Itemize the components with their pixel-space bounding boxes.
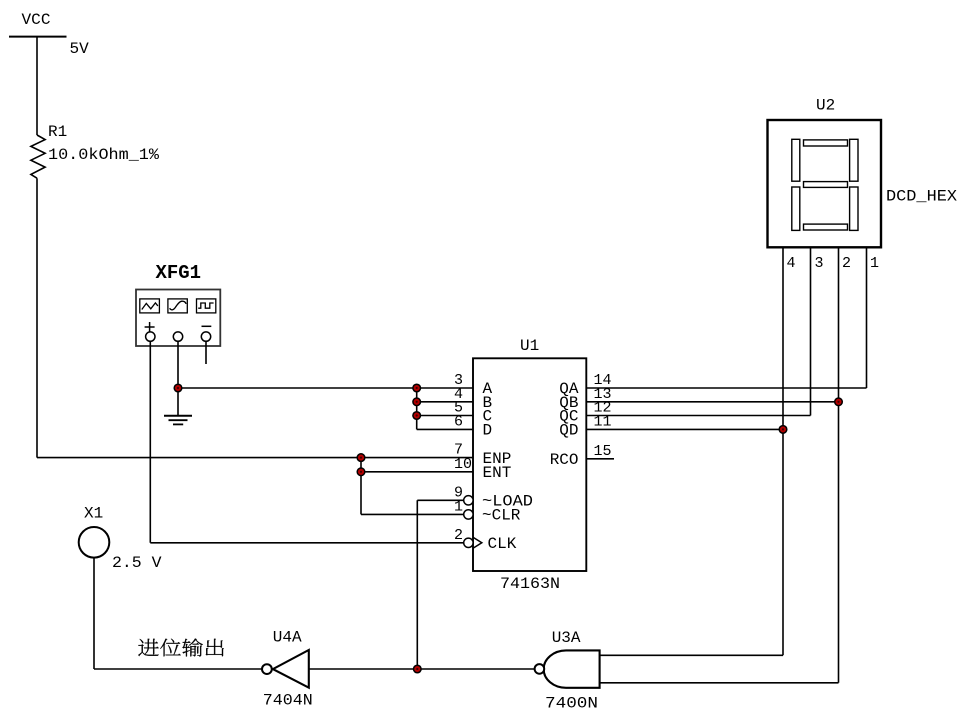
svg-text:R1: R1 (48, 123, 67, 141)
svg-text:11: 11 (594, 413, 612, 430)
svg-text:U4A: U4A (273, 628, 302, 646)
svg-text:10: 10 (454, 456, 472, 473)
svg-text:7404N: 7404N (263, 692, 313, 710)
svg-text:U3A: U3A (552, 629, 581, 647)
svg-text:QD: QD (559, 422, 578, 440)
svg-text:U2: U2 (816, 96, 835, 114)
svg-text:2: 2 (842, 255, 851, 272)
svg-text:74163N: 74163N (500, 575, 560, 593)
svg-text:U1: U1 (520, 337, 539, 355)
svg-text:7400N: 7400N (545, 695, 598, 713)
svg-text:10.0kOhm_1%: 10.0kOhm_1% (48, 146, 159, 164)
svg-text:2: 2 (454, 527, 463, 544)
svg-text:CLK: CLK (488, 535, 517, 553)
svg-text:3: 3 (815, 255, 824, 272)
svg-text:~CLR: ~CLR (482, 507, 521, 525)
svg-text:RCO: RCO (550, 451, 579, 469)
svg-text:X1: X1 (84, 505, 103, 523)
svg-text:15: 15 (594, 443, 612, 460)
svg-text:1: 1 (870, 255, 879, 272)
svg-text:1: 1 (454, 498, 463, 515)
svg-text:XFG1: XFG1 (156, 262, 202, 284)
svg-text:4: 4 (787, 255, 796, 272)
svg-text:DCD_HEX: DCD_HEX (886, 187, 957, 205)
svg-text:6: 6 (454, 413, 463, 430)
svg-text:2.5 V: 2.5 V (112, 554, 162, 572)
svg-text:D: D (483, 422, 493, 440)
svg-text:5V: 5V (70, 40, 90, 58)
svg-text:VCC: VCC (22, 11, 51, 29)
svg-text:ENT: ENT (483, 464, 512, 482)
